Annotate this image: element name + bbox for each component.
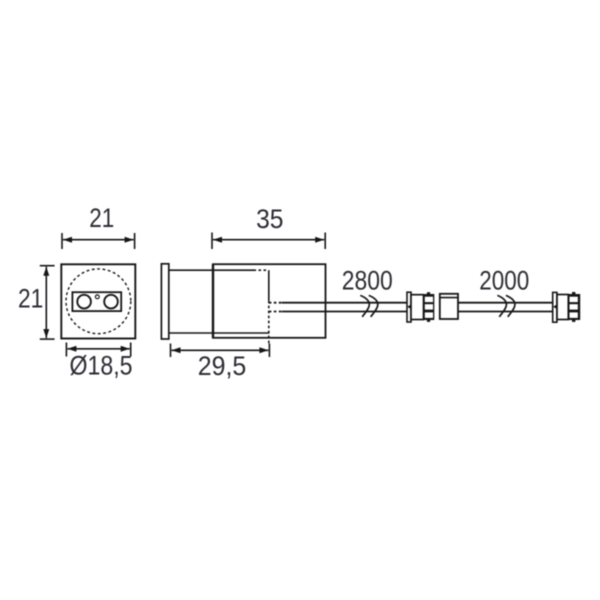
plug connector 1 strain notch <box>407 305 411 310</box>
socket connector 2 cap line <box>440 297 458 299</box>
dimension 29,5: extension ticks <box>170 344 172 358</box>
plug connector 3 flange <box>553 292 557 322</box>
svg-text:29,5: 29,5 <box>198 351 247 381</box>
wire bottom run to first plug <box>282 311 407 313</box>
wire bottom run to end plug <box>458 311 554 313</box>
svg-text:Ø18,5: Ø18,5 <box>70 351 133 381</box>
side view body right hidden edge and extension <box>268 301 270 344</box>
housing left edge doubled line <box>212 264 214 338</box>
plug connector 3 latch bumps <box>572 292 575 294</box>
dimension 21 left: extension ticks <box>40 265 55 267</box>
plug connector 3 strain notch <box>553 305 557 310</box>
side view body right edge solid part <box>268 270 270 300</box>
plug connector 1 latch bumps <box>427 292 430 294</box>
side view body top hidden edge <box>254 269 269 271</box>
plug connector 3 body <box>557 295 568 320</box>
left LED circle <box>77 295 91 309</box>
dimension 21 top: extension ticks <box>61 233 63 249</box>
dimension 35 top: arrow line <box>213 239 324 241</box>
plug connector 1 flange <box>407 292 411 322</box>
cable break symbol 2 <box>497 295 506 317</box>
housing rectangle <box>213 264 326 338</box>
socket connector 2 body <box>440 294 458 319</box>
dimension 21 top: arrow line <box>63 239 134 241</box>
plug connector 1 body <box>411 295 424 320</box>
dashed bezel circle Ø18,5 <box>66 269 131 334</box>
dimension 35 top: extension ticks <box>211 233 213 250</box>
svg-text:21: 21 <box>18 283 43 313</box>
wire bottom hidden start <box>269 311 282 313</box>
svg-text:2800: 2800 <box>342 265 393 295</box>
wire top run to first plug <box>282 302 407 304</box>
side view front flange <box>161 264 168 339</box>
wire top run to end plug <box>458 302 554 304</box>
lamp window rectangle <box>72 292 121 311</box>
plug connector 1 pin block <box>424 294 435 320</box>
svg-text:2000: 2000 <box>479 266 529 296</box>
wire top hidden start <box>269 302 282 304</box>
svg-text:21: 21 <box>89 203 114 233</box>
side view body bottom edge <box>169 332 269 334</box>
side view body top edge <box>169 269 254 271</box>
dimension 21 left: arrow line <box>45 267 47 338</box>
dimension Ø18,5: arrow line <box>67 348 129 350</box>
front view face plate square <box>61 264 135 338</box>
right LED circle <box>104 295 118 309</box>
cable break symbol 1 <box>360 295 369 317</box>
svg-text:35: 35 <box>256 204 283 234</box>
plug connector 3 pin block <box>568 294 580 320</box>
dimension Ø18,5: extension ticks <box>65 343 67 357</box>
dimension 29,5: arrow line <box>172 349 269 351</box>
small sensor dot <box>95 295 99 299</box>
